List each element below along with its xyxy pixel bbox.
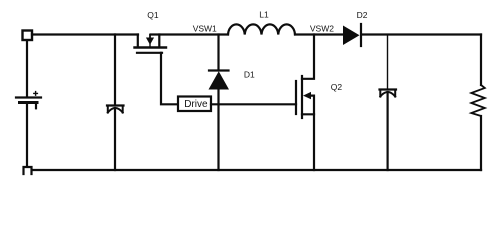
svg-text:Q2: Q2 — [331, 82, 343, 92]
svg-text:VSW1: VSW1 — [193, 24, 217, 34]
svg-text:D1: D1 — [244, 70, 255, 80]
svg-text:Q1: Q1 — [147, 10, 159, 20]
svg-text:L1: L1 — [259, 10, 269, 20]
svg-text:VSW2: VSW2 — [310, 24, 334, 34]
svg-text:D2: D2 — [357, 10, 368, 20]
svg-text:Drive: Drive — [184, 99, 208, 110]
